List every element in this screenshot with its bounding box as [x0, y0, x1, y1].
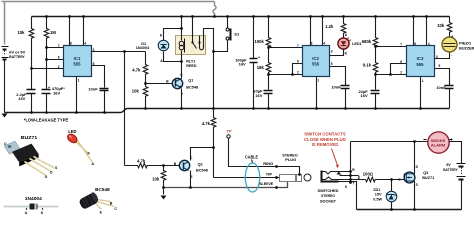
svg-text:6: 6 — [400, 60, 402, 64]
wire IC3 pin7 line — [376, 46, 407, 48]
svg-text:7: 7 — [400, 43, 402, 47]
reed contact blade — [191, 41, 193, 43]
svg-text:TP: TP — [227, 128, 232, 133]
relay coil — [179, 41, 184, 46]
wire battery+ right drop with break squiggle — [213, 2, 216, 17]
wire ground mid rail — [128, 108, 450, 110]
svg-text:9V: 9V — [446, 163, 451, 167]
resistor 4.7k (Q2 base) — [125, 163, 164, 168]
capacitor 22uF 16V — [375, 75, 377, 90]
ground symbol mid — [163, 188, 165, 195]
wire IC2 pin5 to 10nF — [330, 67, 346, 86]
svg-text:8: 8 — [70, 42, 72, 46]
wire IC1 pin5 to 10nF — [92, 66, 105, 88]
svg-text:BUZ71: BUZ71 — [21, 135, 38, 140]
transistor Q1 BC548 — [172, 78, 182, 88]
relay RLY1 reed — [176, 36, 206, 55]
wire R contact up to alarm line — [350, 142, 352, 172]
svg-text:1M: 1M — [50, 30, 56, 35]
wire Q2 collector link — [191, 148, 214, 161]
wire 10uF to mid rail — [268, 94, 270, 109]
wire Q1 collector — [181, 55, 183, 79]
svg-text:PIEZO: PIEZO — [459, 42, 471, 46]
battery B1 6V/9V — [2, 47, 9, 60]
svg-text:16V: 16V — [239, 62, 246, 67]
svg-text:1.2k: 1.2k — [325, 24, 334, 29]
svg-text:4: 4 — [428, 42, 430, 46]
wire IC2 pin3 to LED cathode — [330, 49, 344, 56]
svg-text:10k: 10k — [132, 88, 140, 93]
svg-text:7: 7 — [58, 44, 60, 48]
wire IC3 pin6 bracket — [391, 64, 407, 75]
svg-text:2: 2 — [297, 70, 299, 74]
svg-text:-: - — [451, 54, 452, 58]
svg-text:10nF: 10nF — [436, 85, 446, 90]
wire Q1 emitter to ground rail — [181, 89, 183, 109]
wire D1 anode down and over to Q1 collector — [164, 52, 182, 62]
wire 2.2uF to ground — [31, 94, 33, 113]
wire Q2 base — [148, 165, 180, 167]
svg-text:1N4004: 1N4004 — [136, 46, 150, 50]
wire 10nF to mid rail end — [449, 89, 451, 109]
wire IC1 pin6 stub — [47, 59, 64, 61]
op-amp/timer IC1 555 — [64, 46, 92, 77]
svg-text:16V: 16V — [255, 93, 262, 98]
wire IC2 pin4 drop — [322, 17, 324, 46]
junction dots right section — [349, 140, 416, 211]
resistor 10k (Q2 base-emitter) — [161, 166, 166, 188]
switched stereo socket — [321, 171, 366, 210]
svg-text:D: D — [4, 142, 7, 146]
capacitor 10uF 16V — [268, 75, 270, 90]
svg-text:RING: RING — [263, 161, 273, 166]
svg-text:BATTERY: BATTERY — [443, 168, 458, 172]
label SWITCHED STEREO SOCKET — [318, 188, 339, 203]
wire IC2 pin1 to mid rail — [316, 77, 318, 109]
svg-text:15V: 15V — [375, 193, 382, 197]
wire 10nF to ground — [104, 91, 106, 113]
wire IC1 pin4 drop — [83, 17, 85, 46]
wire alarm to battery — [449, 142, 462, 164]
svg-text:16V: 16V — [361, 93, 368, 98]
wire Q3 source down — [414, 182, 415, 210]
svg-text:0.5W: 0.5W — [373, 198, 382, 202]
socket S line — [339, 182, 357, 210]
svg-text:Q1: Q1 — [188, 79, 193, 83]
wire battery+ top gray line — [2, 1, 215, 3]
wire alarm top line — [351, 141, 428, 143]
svg-text:SLEEVE: SLEEVE — [259, 181, 273, 186]
wire Q1 base — [146, 83, 173, 85]
resistor 4.7k (Q1 base) — [143, 52, 148, 87]
wire IC2 pin7 line — [269, 47, 303, 49]
svg-text:REED: REED — [186, 64, 197, 68]
wire IC3 pin3 to piezo — [435, 53, 450, 59]
socket T contact — [323, 177, 366, 180]
svg-text:10k: 10k — [18, 30, 26, 35]
svg-text:Q3: Q3 — [423, 171, 428, 175]
MOSFET Q3 BUZ71 — [404, 172, 415, 183]
resistor 10k (piezo) — [447, 17, 452, 38]
socket R contact — [326, 172, 351, 175]
wire IC3 pin2 line — [376, 74, 407, 76]
resistor 1.2k — [341, 17, 346, 38]
diode D1 1N4004 — [158, 40, 169, 51]
pictorial 1N4004 — [4, 196, 59, 215]
svg-text:PLUG: PLUG — [285, 157, 296, 162]
svg-text:IC3: IC3 — [417, 56, 424, 61]
wire 22uF to mid rail — [375, 94, 377, 109]
svg-text:LED: LED — [68, 129, 76, 134]
wire relay coil feed from rail — [181, 17, 183, 41]
junction dots cable — [162, 146, 301, 189]
svg-text:555: 555 — [312, 62, 320, 67]
smoke alarm — [428, 132, 449, 153]
svg-text:100Ω: 100Ω — [363, 171, 373, 176]
svg-text:5: 5 — [331, 62, 333, 66]
cable ellipse — [245, 163, 259, 192]
wire battery+ left drop — [4, 2, 6, 45]
wire IC1 pin3 line — [92, 51, 146, 53]
wire 10nF to mid rail — [345, 89, 347, 109]
svg-text:G: G — [398, 177, 401, 181]
wire pin3 branch down to Q2 base — [124, 52, 126, 166]
wire IC1 pin2 stub — [32, 68, 64, 70]
stereo plug body — [280, 175, 296, 182]
socket switched return contact — [340, 176, 360, 180]
svg-text:2: 2 — [58, 65, 60, 69]
svg-text:8: 8 — [414, 42, 416, 46]
svg-text:10k: 10k — [152, 176, 160, 181]
label SWITCH CONTACTS CLOSE WHEN PLUG IS REMOVED — [304, 132, 347, 147]
svg-text:1: 1 — [422, 79, 424, 83]
svg-text:1: 1 — [317, 79, 319, 83]
resistor 10k (IC1 pin7 feed) — [29, 17, 34, 90]
svg-text:IC1: IC1 — [74, 56, 81, 61]
svg-text:CABLE: CABLE — [245, 155, 258, 160]
wire IC2 pin6 bracket — [293, 64, 303, 75]
label - + (alarm) — [424, 139, 427, 141]
wire IC1 pin8 drop — [69, 17, 71, 46]
svg-text:BUZZER: BUZZER — [459, 47, 474, 51]
battery 9V — [457, 164, 466, 180]
svg-text:IC2: IC2 — [312, 56, 319, 61]
svg-text:16V: 16V — [18, 96, 25, 101]
svg-text:+: + — [451, 35, 453, 39]
svg-text:TIP: TIP — [266, 171, 273, 176]
resistor 100R — [366, 177, 392, 182]
svg-text:BUZ71: BUZ71 — [422, 176, 434, 180]
wire sleeve/ground line — [164, 182, 288, 188]
svg-text:555: 555 — [416, 62, 424, 67]
resistor 1M — [44, 17, 49, 90]
capacitor 10nF (IC3) — [445, 86, 454, 89]
capacitor 470uF low-leakage — [42, 90, 51, 94]
svg-text:6: 6 — [58, 56, 60, 60]
svg-text:BC548: BC548 — [95, 187, 110, 192]
svg-text:8: 8 — [311, 42, 313, 46]
capacitor 2.2uF — [27, 90, 36, 94]
reed contact right U — [200, 36, 204, 50]
wire reed right terminal over and down — [204, 29, 214, 109]
wire IC2 pin2 line — [269, 74, 303, 76]
svg-text:+: + — [48, 85, 50, 89]
svg-text:10nF: 10nF — [331, 84, 341, 89]
junction dots mid section — [252, 45, 422, 110]
svg-text:BC548: BC548 — [196, 168, 208, 172]
svg-text:ZD1: ZD1 — [373, 188, 380, 192]
resistor 100k — [266, 17, 271, 48]
switch S1 — [214, 17, 231, 52]
piezo buzzer — [442, 37, 457, 52]
svg-text:SMOKE: SMOKE — [431, 139, 446, 143]
svg-text:IS REMOVED: IS REMOVED — [312, 142, 339, 147]
svg-text:*LOW-LEAKAGE TYPE: *LOW-LEAKAGE TYPE — [24, 118, 69, 123]
wire ground rail left — [5, 109, 128, 113]
wire tip line — [214, 177, 280, 179]
svg-text:4.7k: 4.7k — [137, 159, 146, 164]
svg-text:SOCKET: SOCKET — [320, 198, 337, 203]
wire tip feed down — [213, 148, 215, 178]
zener ZD1 15V 0.5W — [391, 180, 393, 192]
resistor 680k — [373, 17, 378, 48]
svg-text:10k: 10k — [437, 23, 445, 28]
resistor 10k (Q1 base divider) — [143, 87, 148, 109]
transistor Q2 BC548 — [179, 160, 189, 170]
svg-text:4.7k: 4.7k — [202, 121, 211, 126]
wire IC1 pin7 stub — [47, 47, 64, 49]
junction dots top rail — [45, 15, 428, 18]
wire TP to ring line — [229, 139, 300, 175]
svg-text:Q2: Q2 — [198, 162, 203, 166]
svg-text:16V: 16V — [53, 91, 60, 96]
wire 470uF to ground — [46, 94, 48, 113]
ground symbol left — [2, 114, 8, 118]
svg-text:9.1k: 9.1k — [363, 63, 372, 68]
svg-text:10nF: 10nF — [88, 87, 98, 92]
wire IC1 pin1 to ground — [76, 77, 78, 113]
svg-text:100k: 100k — [255, 39, 265, 44]
wire battery- down — [4, 61, 6, 113]
wire 100uF to mid rail — [253, 63, 255, 109]
svg-text:2: 2 — [400, 70, 402, 74]
svg-text:S1: S1 — [234, 31, 240, 36]
pictorial LED — [66, 129, 94, 166]
svg-text:680k: 680k — [362, 39, 372, 44]
svg-text:1: 1 — [78, 79, 80, 83]
wire IC2 pin8 drop — [310, 17, 312, 46]
LED LED1 — [338, 37, 351, 49]
svg-text:G: G — [45, 175, 48, 179]
svg-text:6: 6 — [297, 59, 299, 63]
junction dots left section — [30, 27, 215, 114]
wire Q2 emitter to sleeve/ground — [190, 171, 192, 188]
timer IC3 555 — [407, 46, 435, 77]
svg-text:+: + — [258, 56, 260, 60]
svg-text:4: 4 — [84, 42, 86, 46]
resistor 4.7k (Q2 collector pull-up) — [211, 109, 216, 148]
svg-text:18k: 18k — [257, 65, 265, 70]
svg-text:BC548: BC548 — [186, 85, 198, 89]
pictorial BC548 — [78, 187, 117, 215]
svg-text:BATTERY: BATTERY — [9, 54, 25, 59]
svg-text:7: 7 — [297, 44, 299, 48]
wire D1 cathode up and over to coil top — [164, 29, 182, 41]
wire IC3 pin8 drop — [413, 17, 415, 46]
wire R contact down through T — [350, 172, 352, 183]
svg-text:555: 555 — [73, 62, 81, 67]
capacitor 100uF 16V — [253, 17, 255, 59]
svg-text:LED1: LED1 — [352, 42, 362, 46]
capacitor 10nF (IC2) — [341, 86, 350, 89]
wire IC3 pin5 to 10nF — [435, 69, 450, 86]
svg-text:4.7k: 4.7k — [132, 68, 141, 73]
svg-text:3: 3 — [331, 50, 333, 54]
wire reed contact left from rail — [192, 17, 194, 43]
wire battery down to bottom rail — [461, 181, 463, 210]
timer IC2 555 — [303, 46, 330, 77]
wire IC3 pin4 drop — [426, 17, 428, 46]
svg-text:5: 5 — [439, 64, 441, 68]
capacitor 10nF (IC1) — [100, 89, 109, 91]
resistor 9.1k — [373, 47, 378, 75]
svg-text:1N4004: 1N4004 — [25, 196, 43, 201]
wire Q3 drain up — [414, 142, 415, 174]
red arrow to socket contact — [332, 149, 338, 166]
svg-text:ALARM: ALARM — [431, 143, 446, 147]
wire gate line — [376, 179, 405, 181]
wire +V rail — [32, 16, 450, 18]
wire IC3 pin1 to mid rail — [420, 77, 422, 109]
wire bottom rail — [357, 209, 462, 211]
pictorial BUZ71 package — [4, 135, 58, 179]
resistor 18k — [266, 48, 271, 75]
svg-text:4: 4 — [323, 42, 325, 46]
